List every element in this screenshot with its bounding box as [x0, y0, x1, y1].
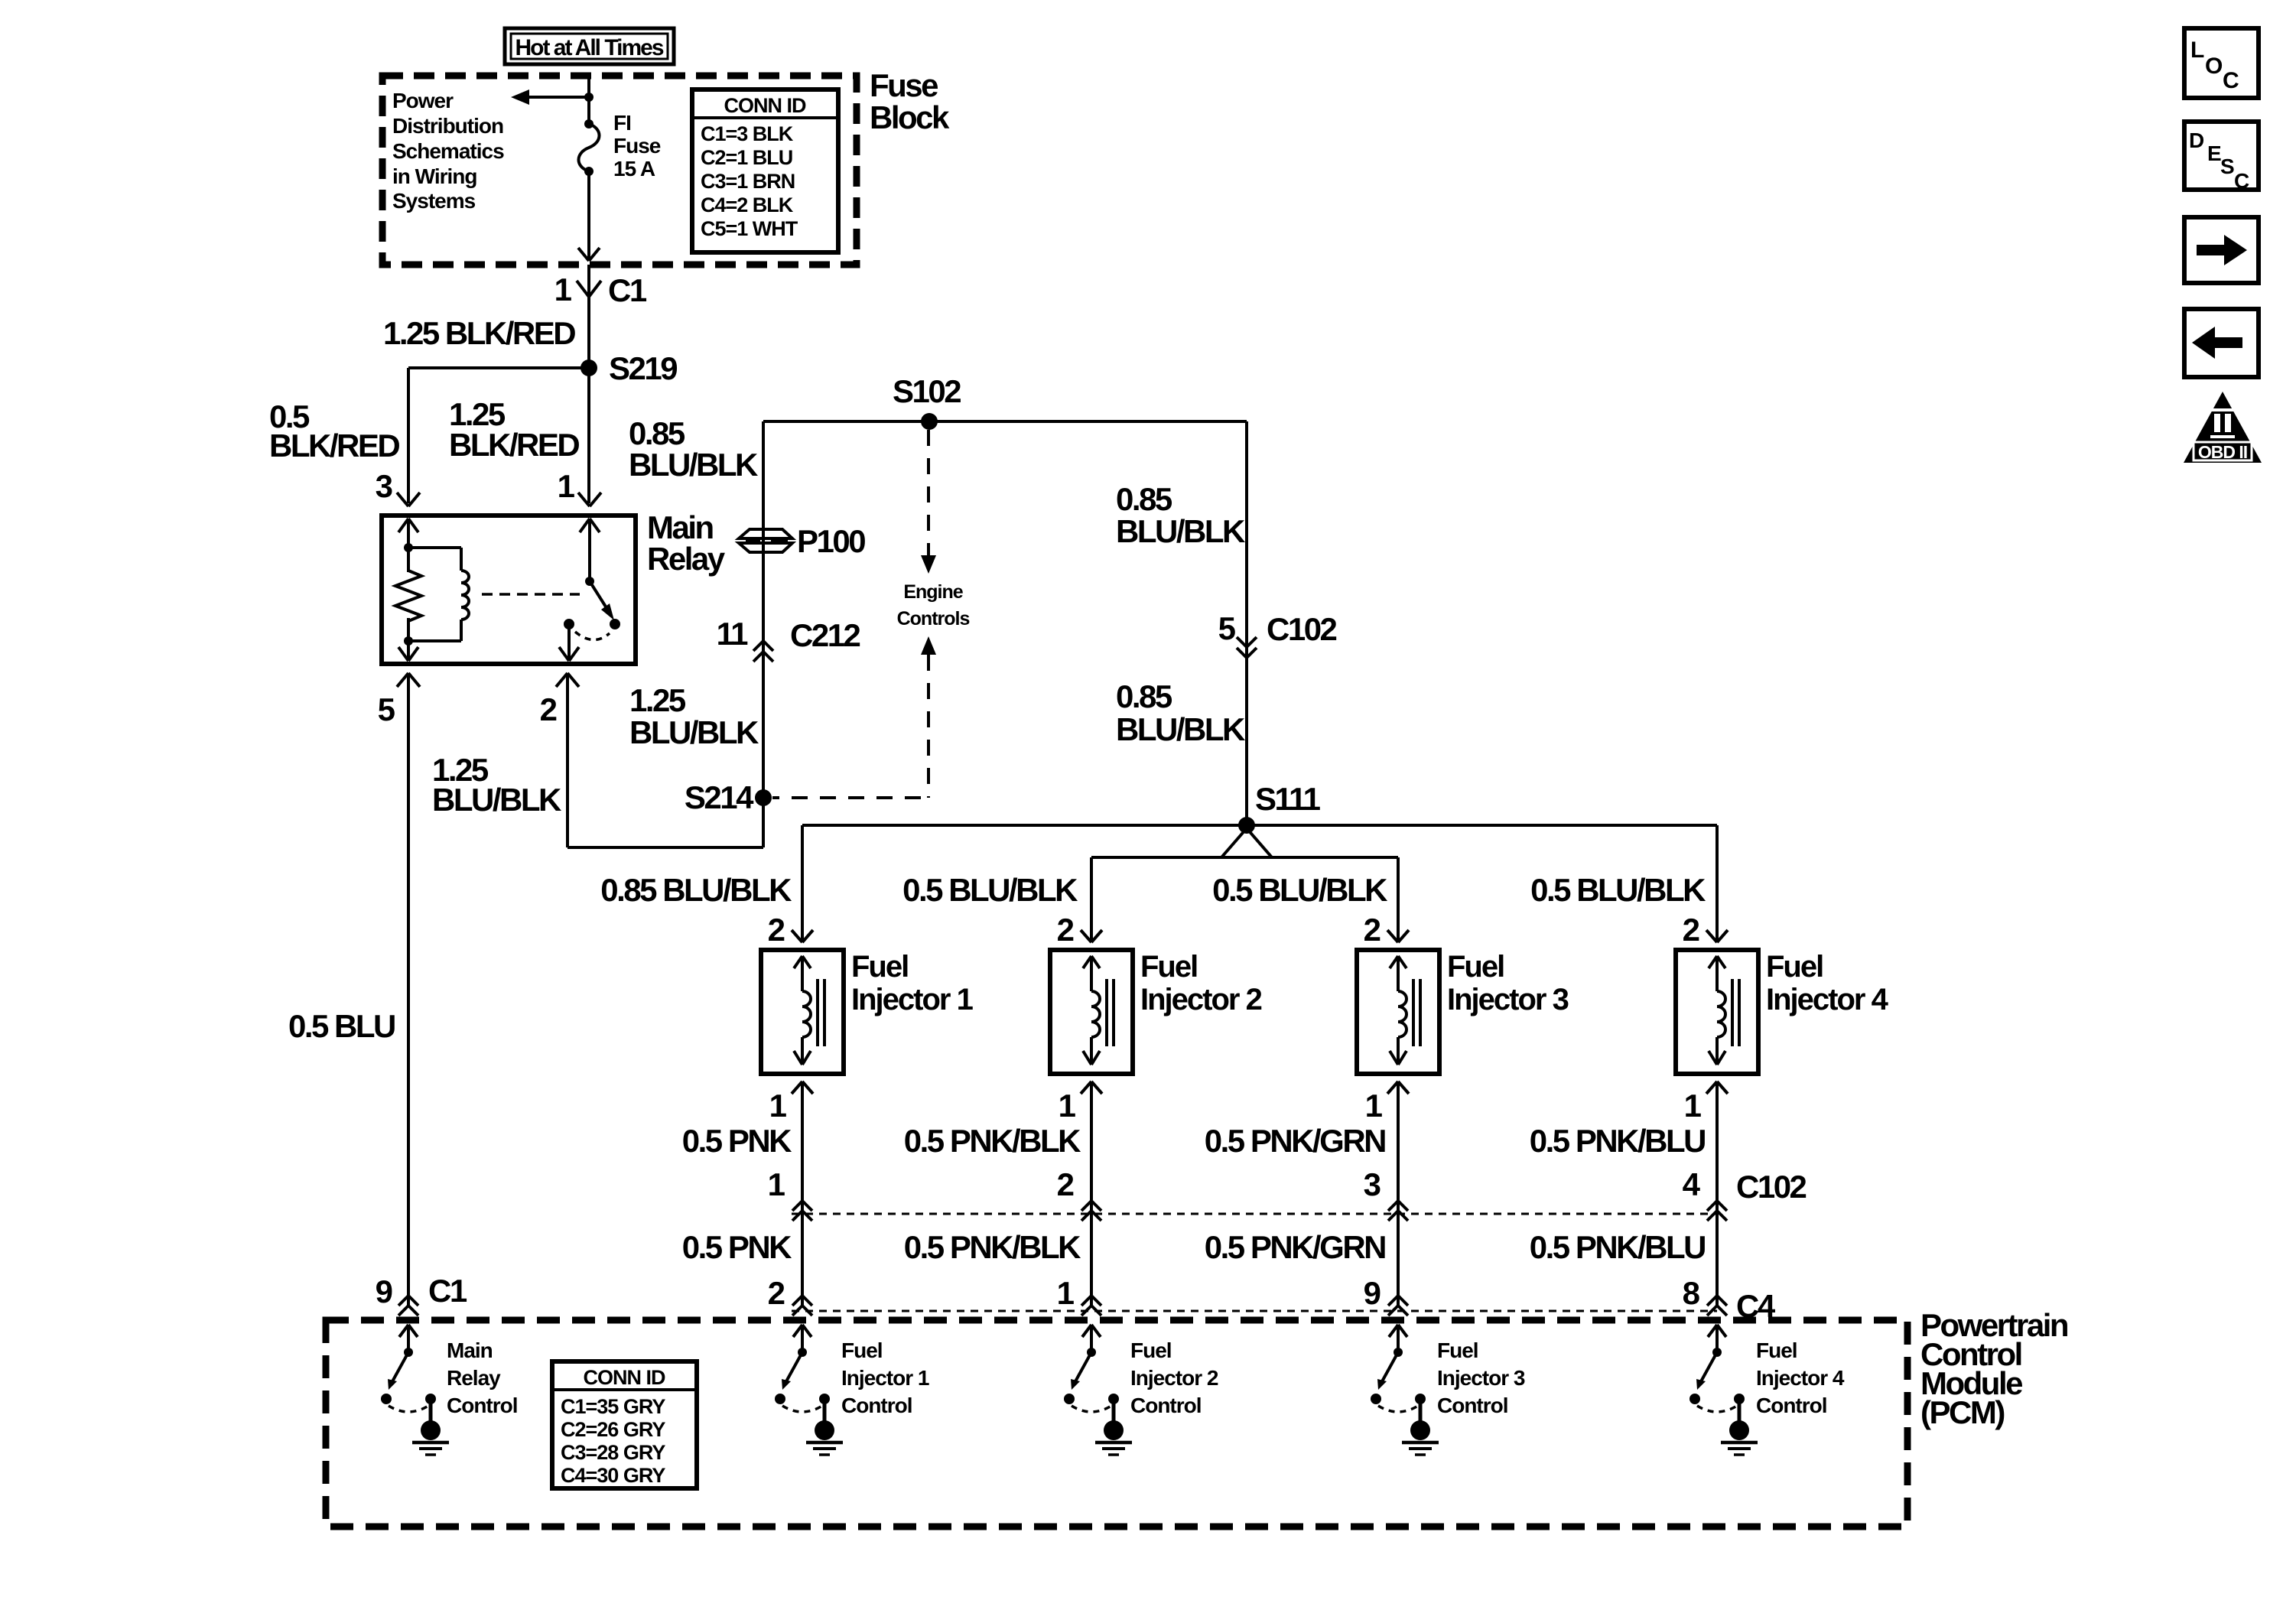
svg-text:in Wiring: in Wiring [392, 164, 477, 188]
svg-text:4: 4 [1683, 1166, 1701, 1202]
svg-text:0.85: 0.85 [1116, 678, 1172, 714]
svg-text:Control: Control [447, 1394, 518, 1417]
svg-text:9: 9 [376, 1273, 393, 1309]
svg-text:Hot at All Times: Hot at All Times [515, 35, 663, 60]
svg-text:BLK/RED: BLK/RED [449, 427, 579, 463]
svg-text:C102: C102 [1736, 1169, 1807, 1205]
svg-text:Main: Main [647, 509, 714, 545]
svg-text:Injector 3: Injector 3 [1437, 1366, 1525, 1390]
svg-text:S219: S219 [609, 350, 677, 386]
svg-text:Injector 4: Injector 4 [1766, 983, 1889, 1016]
svg-text:BLU/BLK: BLU/BLK [629, 447, 758, 483]
svg-text:Fuel: Fuel [841, 1338, 883, 1362]
svg-text:5: 5 [1218, 610, 1236, 646]
svg-text:C1=3 BLK: C1=3 BLK [701, 122, 794, 145]
svg-text:Fuse: Fuse [870, 67, 938, 103]
svg-text:11: 11 [717, 616, 749, 652]
svg-text:2: 2 [540, 691, 558, 727]
svg-text:0.85: 0.85 [1116, 481, 1172, 517]
svg-text:Control: Control [841, 1394, 912, 1417]
svg-text:Fuel: Fuel [1766, 950, 1823, 984]
svg-text:Schematics: Schematics [392, 139, 504, 163]
svg-text:3: 3 [1364, 1166, 1381, 1202]
svg-text:C: C [2234, 169, 2249, 193]
svg-text:0.5 PNK/BLK: 0.5 PNK/BLK [904, 1123, 1081, 1159]
svg-text:Main: Main [447, 1338, 493, 1362]
svg-text:C: C [2223, 68, 2239, 93]
svg-text:0.5 PNK/BLU: 0.5 PNK/BLU [1530, 1229, 1705, 1265]
svg-text:Fuel: Fuel [851, 950, 908, 984]
svg-text:Control: Control [1756, 1394, 1827, 1417]
svg-text:1: 1 [1057, 1275, 1075, 1311]
svg-text:C4=30 GRY: C4=30 GRY [561, 1464, 665, 1487]
svg-text:L: L [2190, 37, 2204, 63]
svg-text:1: 1 [558, 468, 575, 504]
svg-text:0.85 BLU/BLK: 0.85 BLU/BLK [600, 872, 792, 908]
svg-text:Injector 1: Injector 1 [851, 983, 974, 1016]
svg-text:C102: C102 [1267, 611, 1337, 647]
svg-text:D: D [2189, 128, 2204, 152]
svg-text:1: 1 [769, 1088, 787, 1124]
svg-text:Injector 1: Injector 1 [841, 1366, 929, 1390]
svg-text:Relay: Relay [447, 1366, 501, 1390]
svg-text:Controls: Controls [897, 608, 970, 629]
svg-text:1: 1 [768, 1166, 785, 1202]
svg-text:1: 1 [1365, 1088, 1383, 1124]
svg-text:Distribution: Distribution [392, 114, 503, 138]
svg-text:S214: S214 [685, 779, 754, 815]
svg-text:Control: Control [1130, 1394, 1202, 1417]
svg-text:C2=1 BLU: C2=1 BLU [701, 146, 792, 169]
svg-text:BLU/BLK: BLU/BLK [629, 714, 759, 750]
svg-text:Injector 3: Injector 3 [1447, 983, 1569, 1016]
svg-text:2: 2 [1057, 912, 1075, 948]
svg-text:0.5 PNK/GRN: 0.5 PNK/GRN [1205, 1229, 1385, 1265]
svg-text:Systems: Systems [392, 189, 476, 213]
svg-text:Fuel: Fuel [1756, 1338, 1797, 1362]
svg-text:1: 1 [1684, 1088, 1702, 1124]
svg-text:Fuel: Fuel [1447, 950, 1504, 984]
svg-text:C2=26 GRY: C2=26 GRY [561, 1418, 665, 1441]
svg-text:2: 2 [1364, 912, 1381, 948]
svg-text:Control: Control [1437, 1394, 1508, 1417]
svg-text:5: 5 [378, 691, 395, 727]
svg-text:C1=35 GRY: C1=35 GRY [561, 1395, 665, 1418]
svg-text:Engine: Engine [903, 581, 963, 603]
svg-text:BLU/BLK: BLU/BLK [1116, 513, 1245, 549]
svg-text:3: 3 [376, 468, 393, 504]
svg-text:Fuel: Fuel [1437, 1338, 1478, 1362]
svg-text:S111: S111 [1255, 781, 1321, 817]
svg-text:0.5 PNK/BLK: 0.5 PNK/BLK [904, 1229, 1081, 1265]
svg-text:S: S [2220, 154, 2235, 178]
svg-text:P100: P100 [797, 523, 865, 559]
svg-text:C1: C1 [608, 272, 647, 308]
svg-text:FI: FI [613, 111, 631, 135]
svg-text:0.5 PNK: 0.5 PNK [682, 1229, 792, 1265]
svg-text:Injector 2: Injector 2 [1140, 983, 1262, 1016]
svg-text:CONN ID: CONN ID [584, 1366, 666, 1389]
svg-text:9: 9 [1364, 1275, 1381, 1311]
svg-text:C1: C1 [428, 1273, 467, 1309]
svg-text:C3=1 BRN: C3=1 BRN [701, 170, 795, 193]
svg-text:Relay: Relay [647, 541, 726, 577]
svg-text:Injector 4: Injector 4 [1756, 1366, 1845, 1390]
svg-text:0.5 PNK: 0.5 PNK [682, 1123, 792, 1159]
svg-text:O: O [2205, 54, 2223, 79]
svg-text:1: 1 [554, 272, 572, 307]
svg-text:2: 2 [1683, 912, 1700, 948]
svg-text:0.5 BLU/BLK: 0.5 BLU/BLK [1530, 872, 1706, 908]
svg-text:BLU/BLK: BLU/BLK [1116, 711, 1245, 747]
svg-text:0.5 BLU: 0.5 BLU [288, 1008, 395, 1044]
svg-text:C212: C212 [790, 617, 860, 653]
svg-text:Fuel: Fuel [1140, 950, 1197, 984]
svg-text:0.5 PNK/BLU: 0.5 PNK/BLU [1530, 1123, 1705, 1159]
svg-text:CONN ID: CONN ID [724, 94, 807, 117]
svg-text:0.85: 0.85 [629, 415, 685, 451]
svg-text:BLU/BLK: BLU/BLK [432, 782, 561, 818]
svg-text:Injector 2: Injector 2 [1130, 1366, 1218, 1390]
svg-text:Power: Power [392, 89, 454, 112]
svg-text:1.25: 1.25 [629, 682, 686, 718]
svg-text:1: 1 [1059, 1088, 1076, 1124]
svg-text:15 A: 15 A [613, 157, 655, 181]
svg-text:2: 2 [768, 1275, 785, 1311]
svg-text:0.5 BLU/BLK: 0.5 BLU/BLK [1212, 872, 1387, 908]
svg-text:OBD II: OBD II [2198, 442, 2247, 462]
svg-text:0.5 PNK/GRN: 0.5 PNK/GRN [1205, 1123, 1385, 1159]
svg-text:E: E [2207, 141, 2222, 165]
svg-text:Fuel: Fuel [1130, 1338, 1172, 1362]
svg-text:S102: S102 [893, 373, 961, 409]
svg-text:2: 2 [768, 912, 785, 948]
svg-text:(PCM): (PCM) [1920, 1394, 2004, 1430]
svg-text:C5=1 WHT: C5=1 WHT [701, 217, 798, 240]
svg-text:C3=28 GRY: C3=28 GRY [561, 1441, 665, 1464]
svg-text:2: 2 [1057, 1166, 1075, 1202]
svg-text:8: 8 [1683, 1275, 1700, 1311]
svg-text:BLK/RED: BLK/RED [269, 428, 399, 463]
svg-text:C4=2 BLK: C4=2 BLK [701, 194, 794, 216]
svg-text:Block: Block [870, 99, 950, 135]
svg-text:1.25 BLK/RED: 1.25 BLK/RED [383, 315, 575, 351]
svg-text:Fuse: Fuse [613, 134, 661, 158]
svg-text:0.5 BLU/BLK: 0.5 BLU/BLK [902, 872, 1078, 908]
